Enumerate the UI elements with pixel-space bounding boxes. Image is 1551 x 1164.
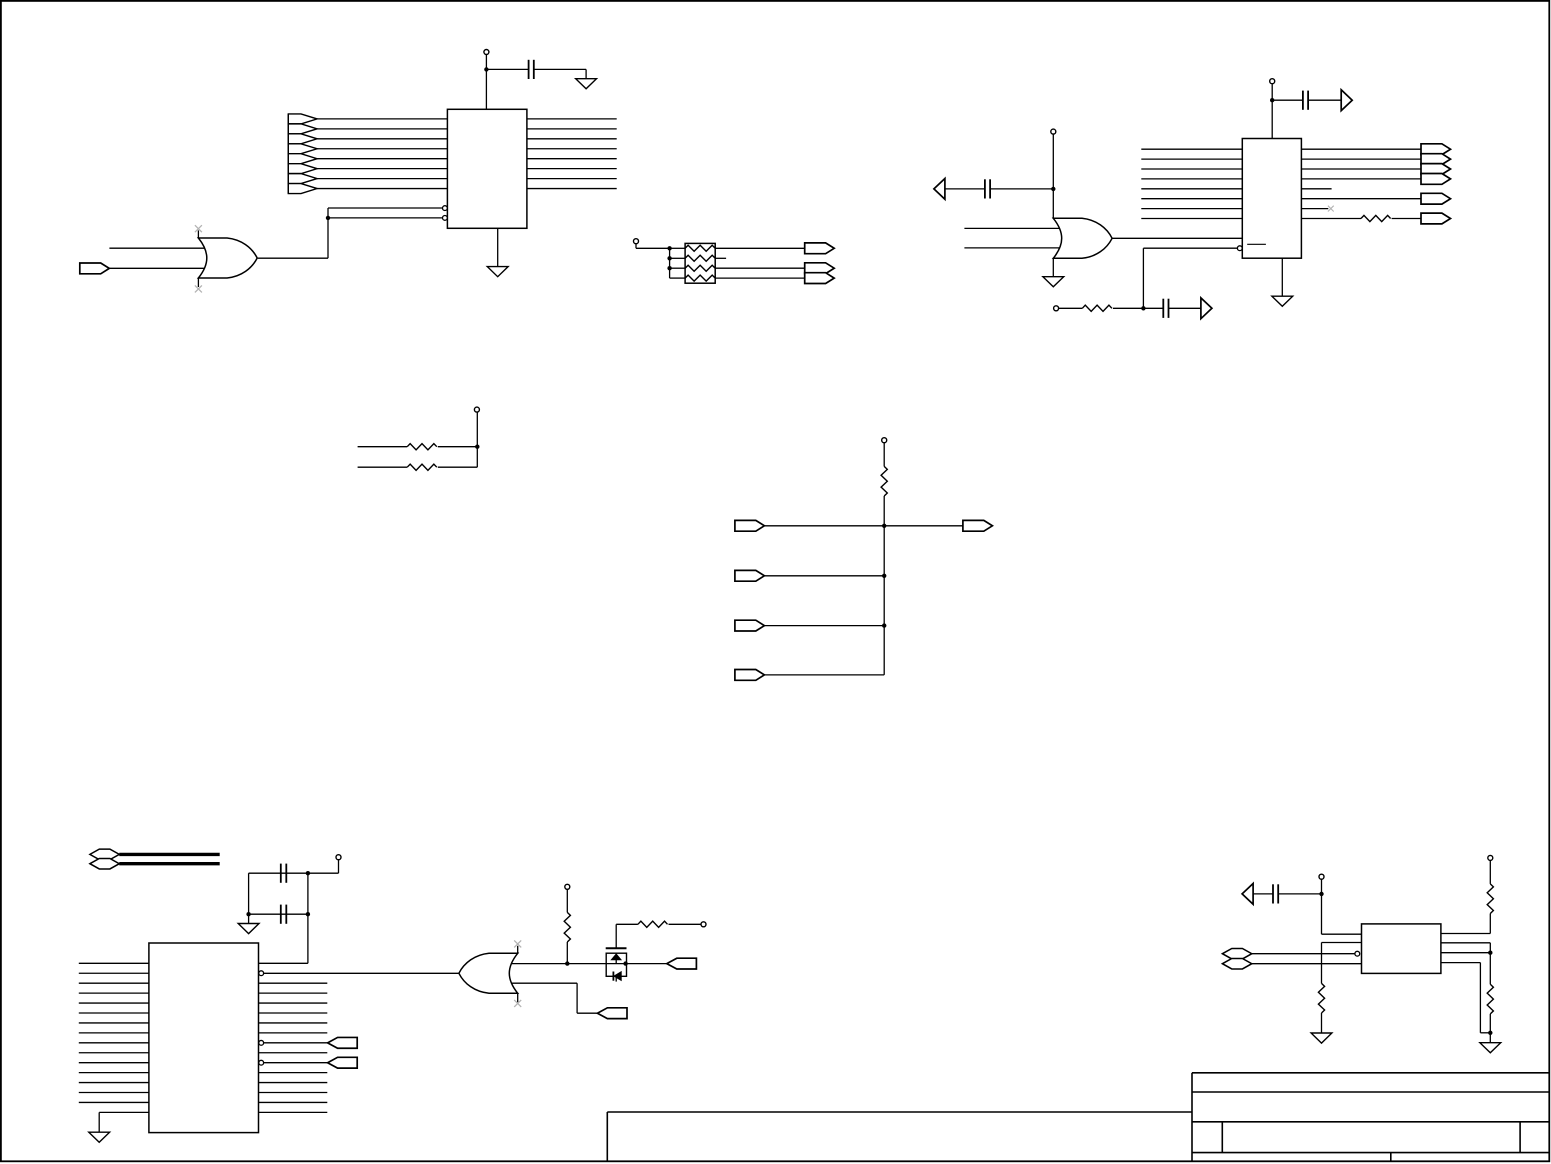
no-connect X on U6 bottom stub <box>514 1000 521 1007</box>
wire node EN to bubble pin 2 <box>328 217 443 219</box>
junction N7 left <box>246 912 250 916</box>
wire down to connector J20 <box>576 983 578 1013</box>
wire P2 to RN1 common <box>636 247 670 249</box>
junction RN1 pin3 <box>667 266 671 270</box>
stub wires U5 right group B <box>259 1073 328 1113</box>
wire J15 to net N5 <box>763 674 884 676</box>
resistor R8 <box>1318 983 1324 1013</box>
junction N7 right <box>306 912 310 916</box>
node N8 junction <box>565 961 569 965</box>
wire R10 to node N12 <box>1489 1014 1491 1033</box>
no-connect X on U3 out 7 <box>1328 206 1334 212</box>
wires into U5 left pins (15 inputs) <box>79 963 149 1102</box>
wire U5 GND pin <box>99 1111 149 1113</box>
wire node EN to bubble pin 1 <box>328 207 443 209</box>
wire C7 to node N10 <box>1278 893 1321 895</box>
wire C1 to ground <box>534 68 586 70</box>
wire into resistor R3 <box>358 446 408 448</box>
U6 unused stub top <box>517 946 519 954</box>
resistor R5 <box>881 466 887 496</box>
IC U1 <box>447 109 527 228</box>
IC U5 <box>149 943 259 1133</box>
wire P9 to resistor R6 <box>566 890 568 913</box>
wire P1 to node VCC1 <box>485 55 487 70</box>
wire right vertical N6 down to U5 pin <box>307 873 309 963</box>
wire R7 to pin P10 <box>669 923 701 925</box>
notes box <box>607 1112 1192 1161</box>
stub RN1 out 2 (n.c.) <box>715 257 726 259</box>
wire U4 input A <box>964 227 1060 229</box>
resistor R7 <box>638 921 668 927</box>
wire R6 to node N8 <box>566 942 568 964</box>
power pin P11 <box>1319 874 1324 879</box>
U5 output bubble pin 1 <box>259 971 264 976</box>
wire P7 to resistor R5 <box>883 443 885 467</box>
connector J13 <box>735 570 765 581</box>
or-gate U4 <box>1053 218 1112 258</box>
wire VCC1 down to U1 top pin <box>485 69 487 109</box>
wire U3 out 3 <box>1301 168 1421 170</box>
node VCC1 junction <box>484 67 488 71</box>
power arrow connector T1 <box>1341 90 1352 111</box>
U5 output bubble pin 3 <box>259 1060 264 1065</box>
connector J14 <box>735 620 765 631</box>
power pin P2 of RN1 <box>634 239 639 244</box>
connector J11 <box>735 520 765 531</box>
node N4 junction <box>475 445 479 449</box>
node N3 junction <box>1141 306 1145 310</box>
wire Q1 to connector J21 <box>627 963 667 965</box>
wire U5 bubble 2 to connector J18 <box>264 1042 328 1044</box>
power pin P8 <box>336 855 341 860</box>
wire U6 input 2 <box>511 982 577 984</box>
wire down to ground symbol <box>585 69 587 78</box>
capacitor C3 <box>985 179 990 198</box>
power pin P3 (VCC) of U3 <box>1270 79 1275 84</box>
bus connector J22 <box>1222 948 1251 959</box>
no-connect X on U2 bottom stub <box>195 285 202 292</box>
connector J18 <box>328 1037 358 1048</box>
U3 enable bubble pin <box>1237 246 1242 251</box>
wire RN1 out 1 <box>715 247 805 249</box>
wire U4 output to U3 <box>1112 237 1242 239</box>
wire RN1 out 4 <box>715 277 805 279</box>
junction N6 at right vertical <box>306 871 310 875</box>
junction RN1 pin1 <box>667 246 671 250</box>
IC U7 <box>1362 924 1441 974</box>
wire U7 pin2 down to resistor R8 <box>1321 943 1323 984</box>
ground G1 <box>576 79 597 89</box>
connector J1 <box>80 263 110 274</box>
no-connect X on U2 top stub <box>195 225 202 232</box>
wire U4 input B <box>964 247 1060 249</box>
connector J19 <box>328 1057 358 1068</box>
or-gate U2 <box>198 238 257 278</box>
wire R4 to node N4 <box>438 466 478 468</box>
wire node N3 vertical <box>1142 248 1144 308</box>
wire U3 bubble pin to node N3 <box>1143 247 1237 249</box>
wire P8 down to node N6 <box>338 860 340 873</box>
connector J12 <box>963 520 993 531</box>
wire U3 out 2 <box>1301 158 1421 160</box>
power pin P1 (VCC) of U1 <box>484 50 489 55</box>
U2 unused input stub top <box>197 230 199 238</box>
node N9 junction at Q1 <box>623 961 627 965</box>
wires into U3 left pins (8 inputs) <box>1141 149 1242 218</box>
resistor R6 <box>564 912 570 942</box>
power pin P4 <box>1051 129 1056 134</box>
wire R5 to node N5 <box>883 496 885 526</box>
wire P4 to node N2 <box>1052 134 1054 189</box>
bus connector J17 <box>90 858 119 869</box>
connector J6 <box>1421 154 1451 165</box>
wire N12 to ground <box>1489 1033 1491 1043</box>
bus connector J23 <box>1222 958 1251 969</box>
wire J23 to U7 pin 4 <box>1252 963 1362 965</box>
wire J14 to net N5 <box>763 625 884 627</box>
wire U5 bubble 1 to or-gate U6 <box>264 972 459 974</box>
pin P6 <box>474 407 479 412</box>
capacitor C5 <box>281 864 287 883</box>
or-gate U6 (mirrored) <box>459 953 518 993</box>
connector J20 <box>597 1008 627 1019</box>
pin P10 <box>701 922 706 927</box>
ground G4 under U3 <box>1272 296 1293 306</box>
capacitor C7 <box>1273 884 1278 903</box>
wire N11 to resistor R10 <box>1489 953 1491 985</box>
wire node N6 top <box>249 872 339 874</box>
U5 output bubble pin 2 <box>259 1040 264 1045</box>
transistor Q1 <box>606 924 627 981</box>
wire T2 to capacitor C3 <box>945 188 985 190</box>
wire P12 to resistor R9 <box>1489 861 1491 884</box>
wire U3 out 8 to resistor R1 <box>1301 218 1361 220</box>
capacitor C6 <box>281 905 287 924</box>
title block <box>1192 1073 1549 1161</box>
RN1 resistor elements <box>685 245 715 281</box>
wire U1 GND pin down <box>497 228 499 266</box>
junction N5-2 <box>882 574 886 578</box>
wire input A to U2 <box>109 247 204 249</box>
wire C3 to node N2 <box>990 188 1053 190</box>
connector J15 <box>735 670 765 681</box>
wires U1 right pins (8 outputs) <box>527 119 617 189</box>
no-connect X on U6 top stub <box>514 940 521 947</box>
stub wire U5 right <box>259 1052 328 1054</box>
wire J13 to net N5 <box>763 575 884 577</box>
connector J3 <box>805 263 835 274</box>
connector J5 <box>1421 144 1451 155</box>
U1 enable bubble pin 1 <box>443 206 448 211</box>
connector J8 <box>1421 174 1451 185</box>
connector J21 <box>667 958 697 969</box>
connector J10 <box>1421 213 1451 224</box>
wire vertical at node EN <box>327 208 329 258</box>
wire R8 to ground <box>1321 1013 1323 1033</box>
ground G2 under U1 <box>487 267 508 277</box>
wire U3 GND pin down <box>1281 258 1283 296</box>
connector J9 <box>1421 193 1451 204</box>
wire node N8 to transistor Q1 <box>567 963 606 965</box>
resistor R4 <box>407 464 437 470</box>
node N2 junction <box>1051 187 1055 191</box>
resistor R3 <box>407 444 437 450</box>
wire U7 out 1 <box>1441 933 1490 935</box>
resistor R2 <box>1082 305 1112 311</box>
stub wires U5 right group A <box>259 983 328 1033</box>
wire J11 to J12 through node N5 <box>763 525 963 527</box>
stub wires into RN1 <box>670 248 686 278</box>
ground G6 <box>89 1132 110 1142</box>
wire left vertical C5/C6 to ground <box>248 873 250 923</box>
wire N3 to capacitor C4 <box>1143 307 1163 309</box>
power pin P7 <box>882 438 887 443</box>
stub U3 out 5 (n.c.) <box>1301 188 1331 190</box>
wire node N4 vertical <box>476 447 478 468</box>
wire R2 to node N3 <box>1113 307 1144 309</box>
node N5 junction <box>882 524 886 528</box>
U6 unused stub bottom <box>517 993 519 1003</box>
power arrow connector T4 <box>1242 884 1253 905</box>
IC U3 <box>1242 139 1301 259</box>
wire C4 to power arrow T3 <box>1169 307 1201 309</box>
junction RN1 pin2 <box>667 256 671 260</box>
wire P3 to node VCC2 <box>1271 84 1273 100</box>
wire RN1 out 3 <box>715 267 805 269</box>
wire N2 down to or-gate U4 <box>1052 189 1054 219</box>
wire J22 to U7 bubble pin <box>1252 953 1355 955</box>
wire Q1 gate to resistor R7 <box>616 923 638 925</box>
node N11 junction <box>1488 951 1492 955</box>
capacitor C4 <box>1163 299 1168 318</box>
resistor R10 <box>1487 984 1493 1014</box>
stub U3 out 7 (n.c.) <box>1301 208 1328 210</box>
wire P6 to node N4 <box>476 412 478 446</box>
wire R1 to connector J10 <box>1392 218 1421 220</box>
wire R9 down to U7 out 1 <box>1489 914 1491 934</box>
node N12 junction <box>1488 1031 1492 1035</box>
RN1 common vertical wire <box>669 248 671 278</box>
bus entry arrows into U1 (8 inputs) <box>288 114 317 194</box>
ground G7 <box>1311 1033 1332 1043</box>
resistor R1 <box>1361 215 1391 221</box>
wire out2 down to node N11 <box>1489 943 1491 953</box>
wire U7 out 4 <box>1441 962 1481 964</box>
wire down to ground G6 <box>98 1112 100 1132</box>
junction N5-3 <box>882 623 886 627</box>
pin P5 <box>1054 306 1059 311</box>
thick bus wire 2 <box>119 862 219 865</box>
wire U7 out 3 to node N11 <box>1441 952 1490 954</box>
resistor network RN1 box <box>685 243 715 283</box>
ground G3 under U4 <box>1043 277 1064 287</box>
wire R3 to node N4 <box>438 446 478 448</box>
bus connector J16 <box>90 849 119 860</box>
wire out4 to node N12 <box>1480 1032 1490 1034</box>
wire to connector J20 <box>577 1012 597 1014</box>
power arrow connector T2 <box>934 179 945 200</box>
wire U5 bubble 3 to connector J19 <box>264 1062 328 1064</box>
node N10 junction <box>1319 892 1323 896</box>
wire U3 out 6 <box>1301 198 1421 200</box>
resistor R9 <box>1487 884 1493 914</box>
U7 bubble pin <box>1355 951 1360 956</box>
wire node N7 bottom <box>249 913 308 915</box>
wire connector J1 to U2 <box>108 267 205 269</box>
wire VCC2 to capacitor C2 <box>1272 99 1303 101</box>
node VCC2 junction <box>1270 98 1274 102</box>
wire P2 down <box>635 244 637 248</box>
connector J2 <box>805 243 835 254</box>
wire N10 down <box>1321 894 1323 934</box>
wire N10 to U7 pin 1 <box>1322 933 1362 935</box>
power arrow connector T3 <box>1201 298 1212 319</box>
U1 enable bubble pin 2 <box>443 216 448 221</box>
capacitor C2 <box>1303 91 1308 110</box>
wire into resistor R4 <box>358 466 408 468</box>
node EN junction <box>326 216 330 220</box>
wire T4 to capacitor C7 <box>1253 893 1273 895</box>
pin P12 <box>1488 855 1493 860</box>
wire VCC1 to capacitor C1 <box>486 68 528 70</box>
wire C2 to power arrow <box>1308 99 1341 101</box>
ground G8 <box>1480 1043 1501 1053</box>
wires bus arrows to U1 left pins <box>317 119 447 189</box>
wire U3 out 1 <box>1301 148 1421 150</box>
wire U3 out 4 <box>1301 178 1421 180</box>
wire out4 down <box>1479 963 1481 1033</box>
wire VCC2 down to U3 top pin <box>1271 100 1273 138</box>
wire below U4 to ground <box>1052 258 1054 277</box>
wire U7 pin 2 left <box>1322 942 1362 944</box>
thick bus wire 1 <box>119 853 219 856</box>
wire OR gate U2 output to node EN <box>258 257 328 259</box>
U2 unused input stub bottom <box>197 277 199 287</box>
wire U6 input 1 to node N8 <box>511 963 567 965</box>
ground G5 <box>238 924 259 934</box>
wire P11 to node N10 <box>1321 879 1323 894</box>
connector J7 <box>1421 164 1451 175</box>
capacitor C1 <box>529 60 534 79</box>
connector J4 <box>805 273 835 284</box>
wire U5 top right pin <box>259 962 308 964</box>
inverted pin marker inside U3 <box>1247 243 1266 245</box>
wire U7 out 2 <box>1441 942 1490 944</box>
net bus vertical wire N5 <box>883 526 885 675</box>
wire P5 to resistor R2 <box>1059 307 1083 309</box>
pin P9 <box>565 884 570 889</box>
